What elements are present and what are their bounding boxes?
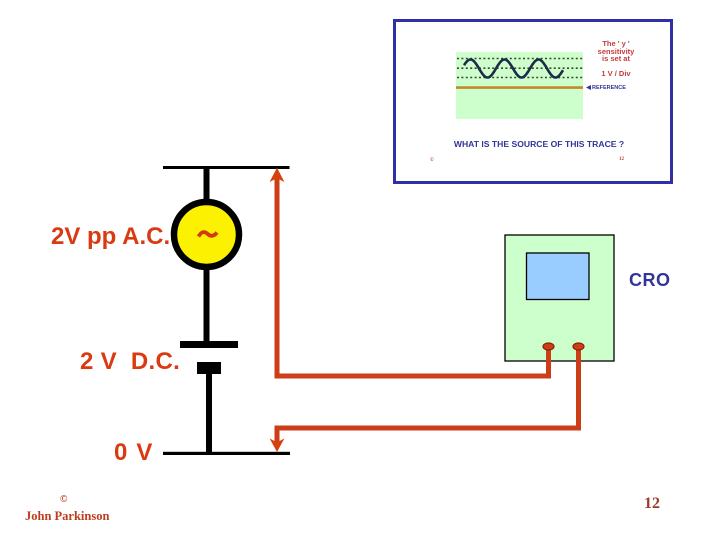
inset slide panel bbox=[393, 19, 673, 184]
arrowhead up at top rail bbox=[270, 168, 285, 182]
slide page number bbox=[644, 495, 660, 513]
red probe wire 1: vertical from top rail arrow down bbox=[275, 178, 280, 378]
inset reference pointer bbox=[586, 85, 591, 90]
label CRO bbox=[629, 270, 671, 291]
0V rail wire bbox=[163, 452, 290, 455]
inset reference line bbox=[456, 86, 583, 89]
label 2 V D.C. bbox=[80, 348, 180, 376]
battery B1 short plate (-) bbox=[197, 362, 221, 374]
inset tiny page number bbox=[619, 157, 624, 162]
red probe wire 1: horizontal run to CRO bbox=[275, 374, 552, 379]
inset sine trace bbox=[464, 60, 563, 78]
CRO terminal 2 bbox=[573, 343, 584, 350]
author credit bbox=[25, 509, 109, 524]
CRO box bbox=[505, 235, 614, 361]
copyright symbol bbox=[60, 494, 67, 505]
inset grid dotted line 1 bbox=[457, 58, 583, 60]
top rail wire bbox=[163, 166, 290, 169]
inset CRO screen area bbox=[456, 52, 583, 119]
red probe wire 2: horizontal run left bbox=[275, 426, 582, 431]
red probe wire 2: drop to 0V rail bbox=[275, 428, 280, 442]
inset grid dotted line 3 bbox=[457, 77, 583, 79]
red probe wire 1: riser to CRO terminal 1 bbox=[546, 347, 551, 378]
inset tiny copyright bbox=[430, 158, 434, 163]
label 0 V bbox=[114, 439, 154, 467]
CRO terminal 1 bbox=[543, 343, 554, 350]
red probe wire 2: vertical from CRO terminal 2 down bbox=[576, 347, 581, 431]
wire AC source to battery bbox=[204, 266, 210, 341]
inset sensitivity text bbox=[583, 40, 649, 78]
inset reference text bbox=[592, 85, 626, 91]
inset question text bbox=[453, 139, 625, 149]
label 2V pp A.C. bbox=[51, 223, 170, 251]
AC source tilde symbol bbox=[199, 232, 218, 236]
AC source V1 circle bbox=[174, 202, 239, 267]
CRO screen bbox=[527, 253, 590, 300]
wire battery to 0V rail bbox=[206, 372, 212, 452]
wire rail to AC source bbox=[204, 166, 210, 204]
inset grid dotted line 2 bbox=[457, 67, 583, 69]
arrowhead down at 0V rail bbox=[270, 439, 285, 453]
battery B1 long plate (+) bbox=[180, 341, 238, 348]
